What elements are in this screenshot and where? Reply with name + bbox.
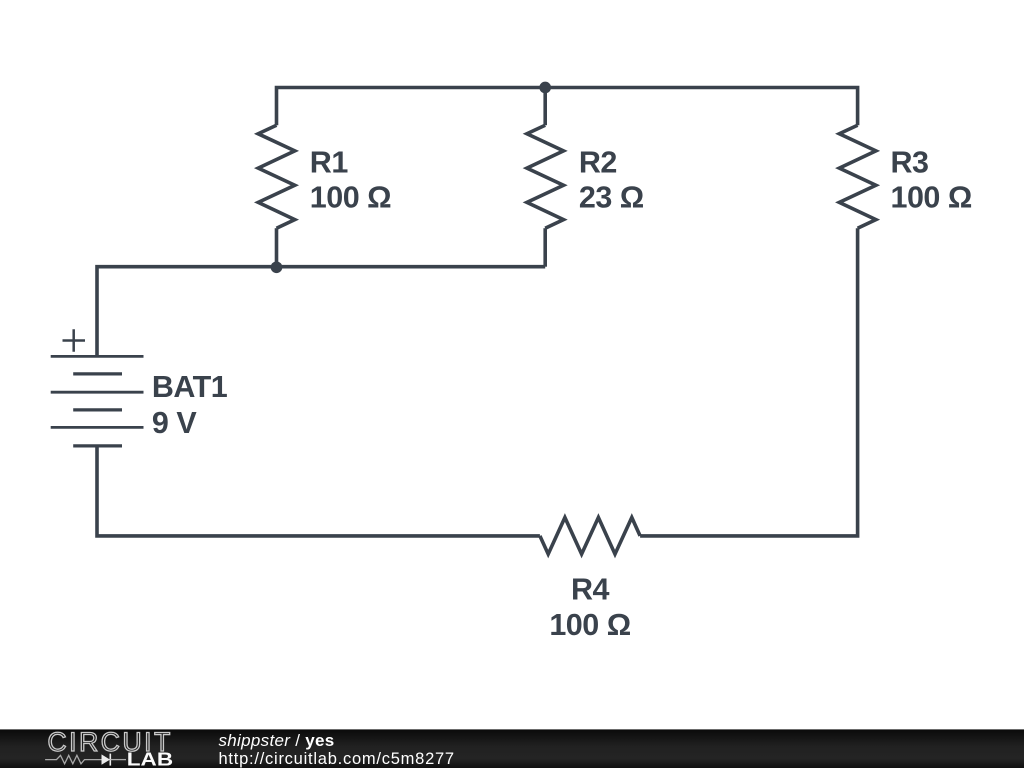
svg-text:100 Ω: 100 Ω — [891, 181, 972, 215]
svg-text:100 Ω: 100 Ω — [549, 608, 630, 642]
CircuitLab wordmark LAB — [127, 748, 173, 768]
svg-text:R4: R4 — [571, 573, 610, 607]
wire: R2 bottom lead — [543, 228, 547, 267]
svg-text:R3: R3 — [891, 146, 929, 180]
wire: R3 bottom lead down right side — [640, 228, 858, 536]
footer author line: shippster / yes — [219, 731, 335, 750]
svg-text:http://circuitlab.com/c5m8277: http://circuitlab.com/c5m8277 — [219, 750, 455, 768]
value R3 100 ohm — [891, 181, 972, 215]
svg-text:LAB: LAB — [127, 748, 173, 768]
wire: top rail with R1 and R3 top leads — [277, 88, 858, 126]
CircuitLab wordmark CIRCUIT — [48, 727, 173, 757]
label R4 — [571, 573, 610, 607]
label R3 — [891, 146, 929, 180]
svg-text:23 Ω: 23 Ω — [579, 181, 644, 215]
value R2 23 ohm — [579, 181, 644, 215]
junction node at R2 top — [539, 82, 551, 94]
svg-text:BAT1: BAT1 — [152, 370, 228, 404]
resistor R3 body — [839, 125, 876, 228]
footer url — [219, 750, 455, 768]
label R2 — [579, 146, 617, 180]
CircuitLab logo diode — [102, 754, 127, 766]
junction node at R1 bottom — [271, 261, 283, 273]
CircuitLab logo resistor squiggle — [45, 755, 101, 763]
value R1 100 ohm — [310, 181, 391, 215]
battery BAT1 plates — [51, 356, 144, 446]
footer bar — [0, 729, 1024, 768]
wire: R2 top lead — [543, 88, 547, 126]
label BAT1 — [152, 370, 228, 404]
value R4 100 ohm — [549, 608, 630, 642]
resistor R2 body — [527, 125, 564, 228]
wire: battery negative to R4 left lead — [97, 446, 540, 536]
svg-text:9 V: 9 V — [152, 406, 197, 440]
wire: middle net from R2/R1 to battery positive — [97, 267, 545, 357]
label R1 — [310, 146, 349, 180]
value BAT1 9 V — [152, 406, 197, 440]
svg-text:shippster / yes: shippster / yes — [219, 731, 335, 750]
svg-text:R2: R2 — [579, 146, 617, 180]
svg-text:100 Ω: 100 Ω — [310, 181, 391, 215]
resistor R1 body — [258, 125, 295, 228]
battery plus sign — [63, 329, 86, 351]
svg-text:R1: R1 — [310, 146, 349, 180]
resistor R4 body — [540, 518, 640, 555]
wire: R1 bottom lead — [275, 228, 279, 267]
